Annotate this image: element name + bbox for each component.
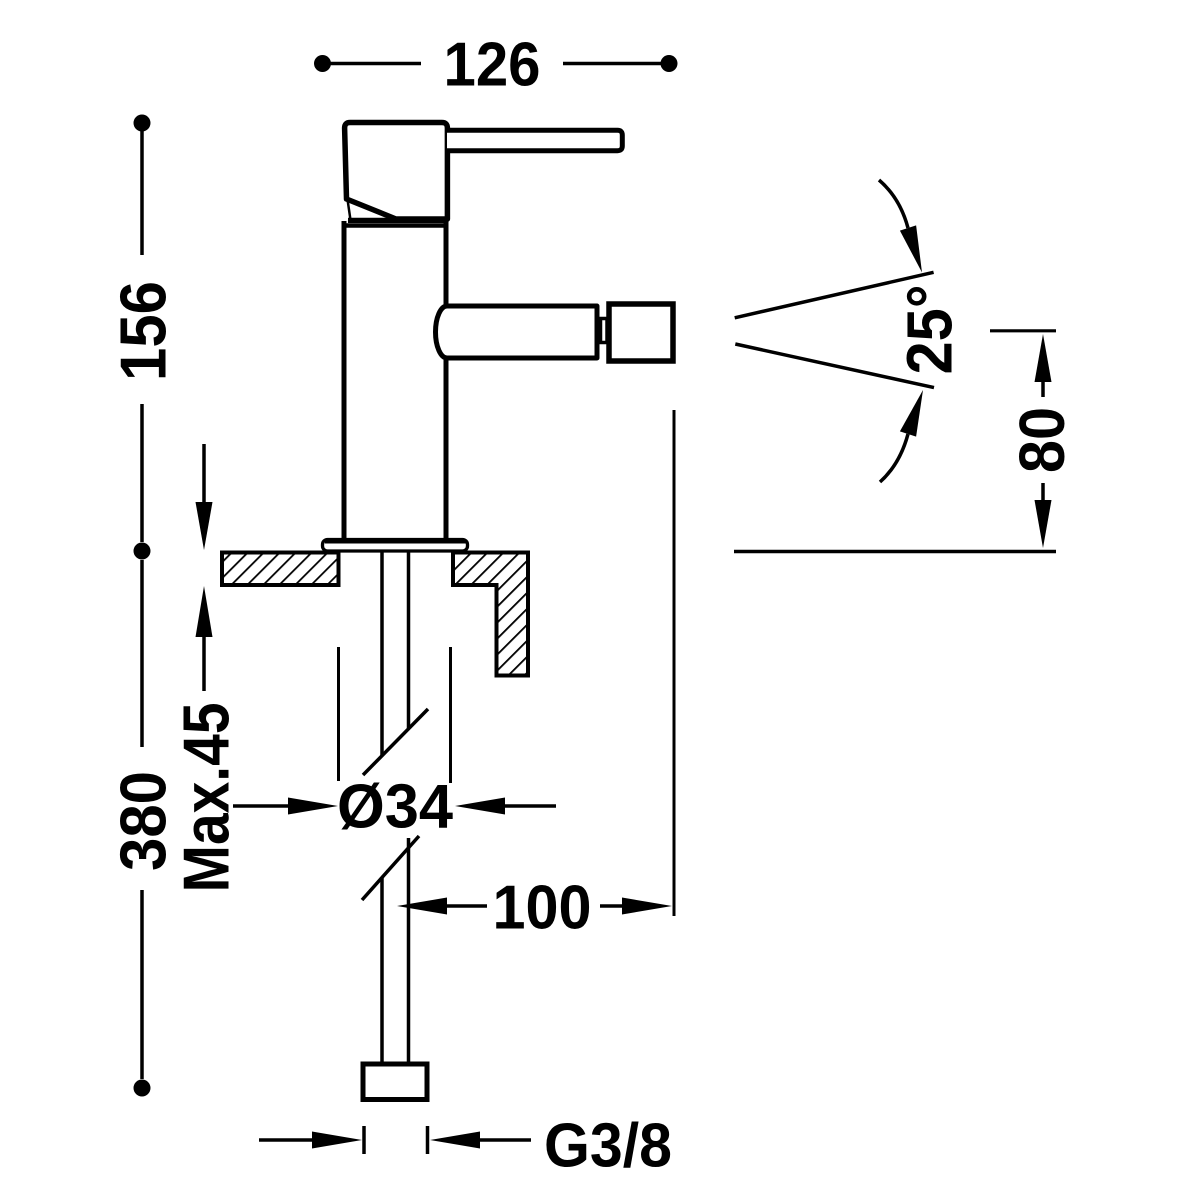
body left edge <box>342 221 347 539</box>
handle base thick line <box>348 218 448 224</box>
body right edge upper segment <box>444 221 449 306</box>
svg-text:100: 100 <box>493 874 592 943</box>
supply pipe left line upper segment <box>380 552 384 756</box>
angle 25 lower arrowhead <box>900 390 923 437</box>
dimension 100 right arrow shaft <box>600 904 624 908</box>
dimension G3/8 right arrow shaft <box>480 1138 531 1142</box>
svg-text:156: 156 <box>107 281 180 381</box>
countertop deck left hatched section <box>222 553 339 586</box>
supply pipe left line lower segment <box>380 877 384 1064</box>
dimension G3/8 right tick <box>426 1126 430 1154</box>
dimension 80 up arrow shaft <box>1041 382 1045 397</box>
dimension O34 left extension line <box>337 647 340 781</box>
supply pipe right line lower segment <box>407 838 411 1064</box>
dimension Max.45 down arrowhead <box>196 502 213 550</box>
dimension 80 top tick <box>990 329 1056 332</box>
dimension 156 top dot <box>134 115 151 132</box>
deck level reference line <box>734 550 1056 554</box>
angle 25 lower arc <box>880 434 908 482</box>
angle 25 upper arrowhead <box>900 225 922 272</box>
spray angle upper line <box>735 272 934 318</box>
dimension 126 left dot <box>314 55 331 72</box>
svg-text:25°: 25° <box>894 285 966 375</box>
dimension 100 right arrowhead <box>622 898 672 915</box>
dimension G3/8 right arrowhead <box>430 1132 480 1149</box>
svg-text:126: 126 <box>444 31 541 100</box>
spray angle lower line <box>735 344 934 388</box>
svg-text:80: 80 <box>1006 407 1078 473</box>
dimension G3/8 left tick <box>362 1126 366 1154</box>
base flange top thick edge <box>325 539 466 544</box>
body right edge lower segment <box>444 358 449 539</box>
dimension Max.45 down arrow shaft <box>202 444 206 504</box>
faucet handle cap <box>345 123 448 220</box>
dimension 156 lower line <box>140 404 144 542</box>
dimension 156 bottom dot shared with 380 <box>134 543 151 560</box>
dimension O34 left arrowhead <box>288 798 338 815</box>
dimension O34 right arrow shaft <box>505 804 556 808</box>
spout neck connector <box>601 319 608 343</box>
dimension 380 upper line <box>140 560 144 747</box>
dimension 126 left line <box>323 62 422 66</box>
dimension 380 bottom dot <box>134 1080 151 1097</box>
dimension 100 left arrow shaft <box>447 904 487 908</box>
dimension 380 lower line <box>140 890 144 1079</box>
dimension 80 up arrowhead <box>1035 334 1052 382</box>
dimension 100 right extension line <box>673 410 676 916</box>
dimension 156 upper line <box>140 123 144 255</box>
dimension G3/8 left arrowhead <box>312 1132 362 1149</box>
body top edge <box>344 223 446 228</box>
dimension 80 down arrow shaft <box>1041 483 1045 500</box>
handle chamfer sliver line <box>348 200 351 221</box>
spout tube with rounded cap <box>436 306 598 358</box>
dimension 80 down arrowhead <box>1035 500 1052 548</box>
dimension Max.45 up arrow shaft <box>202 636 206 691</box>
aerator tip <box>609 304 673 361</box>
dimension Max.45 up arrowhead <box>196 586 213 637</box>
dimension O34 left arrow shaft <box>233 804 291 808</box>
base flange <box>323 540 468 552</box>
supply pipe right line upper segment <box>407 552 411 728</box>
dimension G3/8 left arrow shaft <box>259 1138 312 1142</box>
handle lever bar <box>447 130 622 150</box>
dimension 126 right line <box>563 62 669 66</box>
dimension O34 right arrowhead <box>455 798 505 815</box>
angle 25 upper arc <box>879 180 908 228</box>
dimension O34 right extension line <box>449 647 452 783</box>
countertop deck right hatched section <box>453 553 528 676</box>
svg-text:G3/8: G3/8 <box>544 1112 672 1181</box>
faucet body fill <box>342 223 449 539</box>
pipe break upper diagonal <box>363 709 428 775</box>
supply pipe end nut <box>363 1064 427 1100</box>
dimension 126 right dot <box>661 55 678 72</box>
pipe break lower diagonal <box>362 836 419 900</box>
dimension 100 left arrowhead <box>397 898 447 915</box>
svg-text:Max.45: Max.45 <box>170 703 243 893</box>
svg-text:Ø34: Ø34 <box>337 773 453 842</box>
